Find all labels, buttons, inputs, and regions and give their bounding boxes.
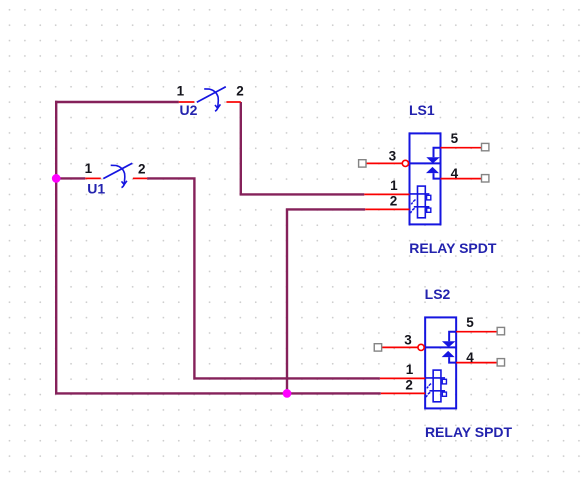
LS2 coil knob 2 [442, 392, 446, 396]
LS1 pin 4 lead [441, 178, 482, 180]
LS1 pin 1 lead [364, 193, 409, 195]
LS2 NO contact elbow to pin 4 [449, 357, 456, 363]
U2 pin 2 lead [226, 101, 240, 103]
U1 blade [103, 163, 132, 178]
wire: junction to U1 pin 1 [56, 177, 85, 179]
LS1 pin 4 open-end square [482, 175, 489, 182]
svg-text:RELAY SPDT: RELAY SPDT [425, 424, 513, 440]
LS2 NC contact triangle [442, 341, 456, 347]
LS2 pin 5 lead [456, 331, 497, 333]
LS2 NO contact triangle [442, 351, 455, 357]
LS1 NC contact elbow to pin 5 [434, 148, 441, 158]
LS1 body [410, 133, 441, 224]
LS1 coil knob 2 [427, 208, 431, 212]
svg-text:1: 1 [406, 362, 414, 377]
wire: U2 pin 2 down [240, 102, 242, 194]
LS2 actuator dash lower [426, 392, 430, 397]
relay LS2 [374, 286, 512, 440]
LS2 pin 3 inversion bubble [418, 344, 424, 350]
LS2 common bar (pin 3 line) [425, 346, 456, 348]
svg-text:1: 1 [390, 178, 398, 193]
LS1 coil knob 1 [427, 195, 431, 200]
U1 pin 2 lead [133, 177, 147, 179]
LS1 actuator dash upper [411, 200, 415, 205]
LS2 actuator dash upper [427, 384, 431, 389]
junction at U1 pin 1 tap [52, 174, 61, 183]
LS1 coil crossbar pin 1 [410, 193, 430, 195]
svg-text:LS2: LS2 [425, 286, 451, 302]
LS1 common bar (pin 3 line) [410, 162, 441, 164]
svg-text:2: 2 [236, 84, 244, 99]
svg-text:LS1: LS1 [409, 102, 435, 118]
svg-text:4: 4 [466, 350, 474, 365]
LS1 coil crossbar pin 2 [414, 206, 430, 208]
svg-text:3: 3 [389, 148, 397, 163]
LS1 NO contact triangle [426, 167, 439, 173]
U2 blade [197, 87, 226, 102]
switch U1 [85, 161, 148, 196]
svg-text:2: 2 [405, 378, 413, 393]
svg-text:4: 4 [451, 166, 459, 181]
U1 pin 1 lead [85, 177, 101, 179]
U2 pin 1 lead [179, 101, 195, 103]
svg-text:RELAY SPDT: RELAY SPDT [409, 240, 497, 256]
svg-text:5: 5 [451, 131, 459, 146]
LS2 body [425, 317, 456, 408]
U1 actuator arrow [111, 165, 127, 187]
LS2 pin 2 lead [381, 392, 425, 394]
wire: left vertical rail [55, 101, 57, 394]
wire: bottom horizontal to LS2 pin 2 [55, 392, 381, 394]
LS2 coil [433, 370, 441, 402]
LS2 pin 4 open-end square [497, 359, 504, 366]
LS1 pin 5 lead [441, 147, 482, 149]
LS1 actuator dash lower [411, 208, 415, 213]
LS1 NC contact triangle [426, 157, 440, 163]
wire: across to LS1 pin 1 [241, 193, 364, 194]
wire: U1 pin 2 across and down to LS2 pin 1 [147, 178, 380, 378]
LS2 coil crossbar pin 1 [425, 377, 445, 379]
svg-text:1: 1 [85, 161, 93, 176]
LS1 pin 3 open-end square [359, 160, 366, 167]
svg-text:5: 5 [466, 315, 474, 330]
svg-text:1: 1 [177, 83, 185, 98]
LS2 pin 4 lead [456, 362, 497, 364]
LS2 coil crossbar pin 2 [429, 390, 445, 392]
wire: top horizontal from left rail to U2 pin 1 [55, 101, 179, 103]
LS2 pin 1 lead [380, 377, 425, 379]
svg-text:2: 2 [390, 194, 398, 209]
LS2 pin 5 open-end square [497, 327, 504, 334]
LS2 NC contact elbow to pin 5 [449, 332, 456, 342]
LS2 pin 3 open-end square [374, 344, 381, 351]
U2 actuator arrow [204, 89, 220, 111]
LS2 pin 3 lead [382, 346, 418, 348]
LS1 pin 3 lead [366, 162, 402, 164]
svg-text:U2: U2 [180, 102, 198, 118]
LS2 coil knob 1 [442, 379, 446, 384]
svg-text:U1: U1 [87, 180, 105, 196]
LS1 pin 3 inversion bubble [402, 160, 408, 166]
junction on bottom rail at LS1 pin 2 branch [283, 389, 292, 398]
wire: LS1 pin 2 branch down to bottom rail [287, 209, 365, 393]
LS1 coil [418, 186, 426, 218]
switch U2 [177, 83, 244, 118]
relay LS1 [359, 102, 497, 256]
LS1 pin 2 lead [365, 208, 409, 210]
svg-text:2: 2 [138, 161, 146, 176]
svg-text:3: 3 [404, 332, 412, 347]
LS1 NO contact elbow to pin 4 [434, 173, 441, 179]
LS1 pin 5 open-end square [482, 143, 489, 150]
